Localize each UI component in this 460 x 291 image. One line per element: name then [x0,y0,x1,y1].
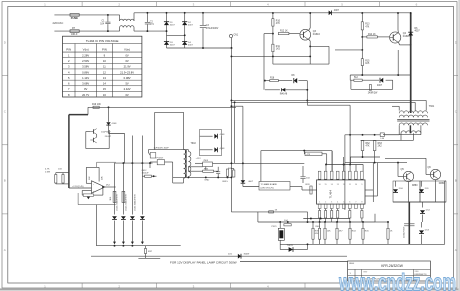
junction stage2 node [361,36,363,38]
svg-text:9: 9 [361,184,362,186]
diode D619 sec [140,216,145,219]
wire fb h-upper [265,80,270,82]
transistor Q4 driver [390,32,401,43]
junction h1633 b [242,162,244,164]
svg-text:C613 2200uF/16V: C613 2200uF/16V [117,194,119,211]
svg-text:R18: R18 [270,77,275,79]
wire D8 to corner [299,80,308,82]
wire r49 bottom [233,176,235,178]
transistor Q6 output [430,169,440,179]
wire 7805 in [195,162,203,164]
diode D12 [420,210,425,213]
wire rc top [56,172,69,174]
svg-text:14: 14 [103,82,106,86]
svg-text:R14 1K: R14 1K [368,34,376,36]
wire y222 ext [375,221,388,223]
wire choke to rail step [133,13,135,21]
svg-text:11: 11 [103,65,106,69]
wire bus y222 [258,221,375,223]
svg-text:A: A [455,248,457,252]
junction C2 top [146,12,148,14]
wire R10 to node [272,26,274,33]
junction bus222 [362,221,364,223]
wire sec drop 3 [131,221,133,244]
start transistor Q7 [93,129,95,133]
wire R14 to base Q4 [362,36,367,38]
start transistor Q8 [93,138,95,142]
resistor R34 [203,170,214,172]
svg-text:10: 10 [355,184,357,186]
junction h163 a [122,162,124,164]
resistor R29 under IC [331,211,333,219]
junction tl431 [307,243,309,245]
wire R12 to base Q3 [289,33,300,35]
transistor Q3 driver [300,29,311,40]
output stage box 2 [420,181,446,202]
svg-text:22K: 22K [89,176,91,180]
junction L1 c [131,245,133,247]
svg-text:D880: D880 [439,183,445,185]
wire AC neutral [54,30,119,32]
junction bus222 [324,221,326,223]
wire node to R11 [272,34,274,45]
wire sec bottom h [383,134,421,136]
junction snubber a [361,74,363,76]
junction L1 b [122,245,124,247]
svg-text:21.9~23.8V: 21.9~23.8V [120,70,134,74]
wire R13 to node2 [361,30,363,37]
svg-text:4148: 4148 [220,148,226,150]
wire bus y107 [88,106,236,108]
junction L1 a [114,245,116,247]
svg-text:13: 13 [103,76,106,80]
junction bus222 [312,221,314,223]
wire T602 primary top [183,112,185,149]
wire stage2 node down [361,37,363,50]
svg-text:0V: 0V [125,59,128,63]
svg-text:C615 1000uF/16V: C615 1000uF/16V [135,194,137,211]
wire snubber left drop [349,75,351,80]
svg-text:R615: R615 [223,181,229,183]
junction h1645 c [349,164,351,166]
junction C3 bottom [202,47,204,49]
wire feedback loop left [82,190,91,192]
svg-text:0V: 0V [125,93,128,97]
wire fb right vertical [306,81,308,101]
svg-text:240R/2W: 240R/2W [368,93,378,95]
svg-text:KFR-26/32GW: KFR-26/32GW [381,264,404,268]
junction thick top [410,12,412,14]
wire y1335 link [109,133,125,135]
wire R63 down [374,151,376,163]
zone tick bottom [155,283,157,288]
junction rail top D1 [166,12,168,14]
wire x1246 corner [124,134,126,164]
wire R18 to D8 [278,80,292,82]
wire sec vertical 4 [141,136,143,215]
wire d60 out vertical [220,136,222,150]
capacitor C3 main filter [202,13,204,25]
zone tick left [2,213,8,215]
wire bottom bus L2 [91,255,347,257]
wire start box left [86,131,91,133]
common mode choke L1 lower winding [119,28,121,32]
op amp area box bottom [78,204,116,206]
svg-text:3: 3 [331,201,332,203]
capacitor C613 box [113,191,116,202]
wire R11 down [272,52,274,64]
svg-text:P521: P521 [272,226,278,228]
svg-text:FUSE: FUSE [71,16,78,20]
zone tick right [454,144,459,146]
junction sg4 [227,176,229,178]
wire bus A B-minus [232,99,427,101]
wire h1508 top line [261,150,332,152]
wire Q4 collector [397,30,399,33]
svg-text:R11: R11 [276,46,281,48]
wire bus y112 [155,111,184,113]
svg-text:B: B [4,179,6,183]
wire x3505 drop [350,157,352,165]
common mode choke L1 upper winding [119,15,121,21]
wire c612 right [151,175,156,177]
svg-text:11: 11 [349,184,351,186]
op amp area box top right [97,161,116,163]
svg-text:1.14V: 1.14V [82,76,89,80]
wire stage1 down to feedback [263,33,265,35]
wire x234 vertical [234,102,236,163]
junction h564 b [272,55,274,57]
wire r615 link [227,176,229,177]
svg-text:CN1: CN1 [234,34,239,36]
IC U601 top pin components [318,171,321,179]
wire output joint [393,201,446,203]
svg-text:4007: 4007 [188,25,194,27]
junction stage1 node [272,33,274,35]
svg-text:4007: 4007 [334,10,340,12]
wire stage1 bottom [273,63,329,65]
arrow out 1 [113,242,116,245]
junction snubber b [397,74,399,76]
svg-text:15: 15 [103,87,106,91]
wire tl431 left [279,244,281,250]
junction h163 d [149,162,151,164]
junction rail top D2 [184,12,186,14]
wire right rail top [445,180,446,182]
wire D10 top [395,181,397,187]
junction sg2 [205,176,207,178]
svg-text:D1616: D1616 [313,33,321,36]
wire node left [264,33,273,35]
svg-text:R63: R63 [378,143,383,145]
svg-text:TL431: TL431 [287,245,294,247]
wire bottom bus L4 [280,243,445,245]
svg-text:V(in): V(in) [124,47,130,51]
wire 3075 drop [307,212,309,222]
arrow out 4 [141,242,144,245]
svg-text:TL494: TL494 [329,190,333,199]
wire y222 corner up [374,214,376,222]
svg-text:10: 10 [103,59,106,63]
wire x332 corner down [331,151,333,171]
junction r3501 [349,134,351,136]
diode D13 [419,230,424,233]
wire r34 link [188,166,202,168]
wire h1052 [307,104,350,106]
thick center tap [409,125,411,133]
svg-text:+12V: +12V [196,158,202,160]
wire vcc line y1348 [345,134,380,136]
wire sec drop 4 [141,221,143,244]
wire B+ top rail [134,12,411,14]
resistor R38 [269,211,274,213]
junction Q3 collector rail [309,12,311,14]
resistor RC filter A [55,175,57,184]
wire sec vertical 2 [122,163,124,214]
wire x1547 drop [154,112,156,149]
junction bus107 a [108,106,110,108]
svg-text:R15: R15 [365,61,370,63]
wire bridge bottom rail [167,47,232,49]
capacitor C604 [302,166,304,176]
wire R13 drop [361,13,363,22]
resistor R42 [336,228,338,239]
svg-text:300W: 300W [244,254,251,256]
junction bus222 [279,221,281,223]
capacitor C617 [205,167,207,170]
svg-text:13: 13 [337,184,339,186]
resistor R48 [387,228,389,239]
svg-text:0V: 0V [125,53,128,57]
thick output filter line [408,202,410,244]
diode D603 [214,147,217,152]
capacitor C618 [217,167,219,171]
svg-text:20.7V: 20.7V [82,93,89,97]
arrow out 3 [131,242,134,245]
component box R-net [305,152,322,155]
wire d603 in [200,149,213,151]
wire x3501 drop [349,105,351,135]
output stage box 1 [393,181,420,202]
wire vcc line right [384,134,399,136]
wire h163 link [115,162,153,164]
diode D10 output [393,189,398,192]
wire CN1 drop [231,38,233,48]
wire bus B corner into winding [414,102,416,110]
wire sec right drop [420,125,422,134]
junction Q4 collector rail [397,12,399,14]
diode D4 bridge [182,42,187,45]
IC U601 TL494 body [317,180,365,204]
svg-text:GND: GND [204,180,209,182]
wire bottom bus L1 [96,245,180,247]
table TL494 working voltage [63,36,142,97]
resistor R18 [270,80,279,82]
junction h1633 a [230,162,232,164]
zone tick right [454,213,459,215]
junction h564 a [230,55,232,57]
capacitor C1 X-cap [107,15,109,22]
wire choke lower out [133,28,135,32]
wire IC right feed [365,189,373,191]
resistor R16 snubber [354,79,362,81]
svg-text:4007: 4007 [170,25,176,27]
wire u602 left [150,161,157,163]
junction bus222 [287,221,289,223]
resistor R17 240R [369,85,371,91]
svg-text:4007: 4007 [170,44,176,46]
resistor R44 [349,228,351,239]
resistor R40 [319,228,321,239]
junction emitter thick [410,44,412,46]
junction bus222 [349,221,351,223]
wire Q4 collector riser [397,50,399,75]
junction sg3 [217,176,219,178]
wire bridge left vertical [166,13,168,48]
svg-text:2200uF/35V: 2200uF/35V [404,226,406,238]
svg-text:FOR 12V DISPLAY PANEL LAMP CIR: FOR 12V DISPLAY PANEL LAMP CIRCUIT 300W [170,261,237,265]
junction h157 [362,156,364,158]
junction y2185 b [320,218,322,220]
wire snubber bottom [351,88,393,90]
resistor R63 [373,141,376,151]
transformer T601 winding row1 [399,111,427,113]
zone tick top [230,2,232,7]
title block outline [348,261,431,281]
svg-text:4007: 4007 [377,85,383,87]
junction stage2 lower [361,49,363,51]
resistor R14 base [367,36,377,38]
wire sec drop 2 [122,221,124,244]
wire Q6 base [426,174,430,176]
junction y1062 [230,105,232,107]
junction h1508 [303,150,305,152]
svg-text:2: 2 [325,201,326,203]
svg-text:16: 16 [103,93,106,97]
wire riser x88 [87,107,89,114]
wire sec vertical 3 [131,136,133,215]
capacitor C610 2200uF/35V [404,223,414,225]
svg-text:0.08V: 0.08V [124,76,131,80]
thermistor RT1 [70,30,79,33]
svg-text:4.7K: 4.7K [45,169,50,171]
wire ref line into op amp [69,187,92,189]
thick feedback vertical [68,115,70,188]
svg-text:5V: 5V [125,82,128,86]
wire x2429 vertical [242,106,244,181]
resistor R28 under IC [325,211,327,219]
svg-text:16: 16 [319,184,321,186]
svg-text:+: + [93,189,95,193]
svg-text:12: 12 [103,70,106,74]
wire stage2 left link [335,49,362,51]
wire start drop [108,107,110,122]
svg-text:PC817: PC817 [157,157,164,159]
wire h1645 [326,164,363,166]
wire c612 left [142,175,144,177]
transformer T601 core [397,119,429,121]
svg-text:R12 1K: R12 1K [280,31,288,33]
svg-text:0.86V: 0.86V [82,70,89,74]
zone tick bottom [378,283,380,288]
junction x234 top [234,101,236,103]
junction bus222 [336,221,338,223]
wire vcc left corner down [344,135,346,210]
wire h1626 [345,162,407,164]
page edge shading right [458,0,460,291]
svg-text:47K: 47K [276,23,281,25]
wire feedback loop right [94,194,103,196]
svg-text:2.28V: 2.28V [82,53,89,57]
junction h564 c [309,55,311,57]
wire Q6 emitter down [435,180,437,202]
title col dividers [354,269,356,281]
junction sg5 [230,176,232,178]
junction vcc a [362,134,364,136]
transformer T601 winding row3 [399,123,427,125]
wire start down [108,125,110,133]
svg-text:TO MAIN BOARD: TO MAIN BOARD [261,183,278,186]
diode D11 output [419,189,424,192]
wire q7q8 link [96,134,98,137]
svg-text:4: 4 [337,201,338,203]
wire rc bottom [55,182,57,185]
svg-text:TL494 IC PIN VOLTAGE: TL494 IC PIN VOLTAGE [86,39,119,43]
resistor R27 under IC [319,211,321,219]
junction bridge AC2 [184,34,186,36]
diode D8 4148 [294,78,297,83]
op amp area box left [77,193,79,205]
wire d22 bottom [242,183,244,186]
wire tl431 right [293,249,308,251]
wire bridge right vertical [184,13,186,48]
svg-text:www.cndzz.com: www.cndzz.com [338,270,456,291]
svg-text:4007: 4007 [188,44,194,46]
svg-text:4148: 4148 [220,134,226,136]
svg-text:15: 15 [325,184,327,186]
wire T602 sec top [187,150,189,152]
row2 divider [348,275,431,277]
resistor R10 [272,19,274,26]
junction h1626 b [397,162,399,164]
svg-text:PIN: PIN [102,47,107,51]
svg-text:1: 1 [319,201,320,203]
TL431 U606 [289,247,293,252]
svg-text:1uF/400V 400P: 1uF/400V 400P [154,147,170,149]
resistor vert above body [98,167,100,181]
wire rnet left [303,151,305,154]
wire Q3 collector [309,28,311,30]
wire R10 drop [272,13,274,19]
diode D21 on L2 [238,254,241,259]
wire pin riser 3501 [349,135,351,171]
svg-text:21.9V: 21.9V [124,65,131,69]
svg-text:6: 6 [349,201,350,203]
optocoupler U605 box [278,228,284,240]
wire B- long vertical [230,100,232,211]
junction y2185 a [310,218,312,220]
diode D6 on thick line [408,32,413,35]
inductor L601 on vcc line [380,133,384,137]
junction B- corner [231,47,233,49]
resistor R32 under IC [361,211,363,219]
svg-text:3.68V: 3.68V [82,82,89,86]
wire AC2 into bridge [167,34,185,36]
op-amp U604 triangle [92,181,105,193]
svg-text:1K5: 1K5 [276,49,281,51]
svg-text:R62: R62 [366,143,371,145]
svg-text:10K: 10K [327,230,331,232]
